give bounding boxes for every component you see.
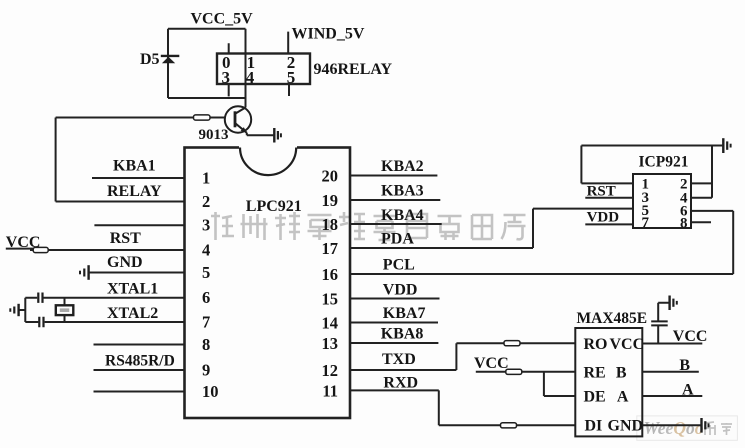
svg-text:3: 3 [222,68,231,87]
svg-text:4: 4 [202,240,210,259]
svg-text:7: 7 [202,312,210,331]
svg-text:PCL: PCL [383,257,415,274]
svg-text:B: B [679,357,690,374]
svg-text:2: 2 [202,192,210,211]
svg-text:VDD: VDD [587,210,620,226]
svg-text:9013: 9013 [199,127,229,143]
svg-text:RS485R/D: RS485R/D [105,353,175,370]
svg-text:KBA8: KBA8 [381,326,424,343]
svg-text:VCC: VCC [673,328,708,345]
svg-text:RST: RST [587,184,616,200]
svg-text:VCC_5V: VCC_5V [191,11,254,28]
svg-text:RE: RE [584,364,606,381]
svg-text:WeeQoo: WeeQoo [644,418,704,438]
svg-text:19: 19 [322,191,339,210]
svg-text:D5: D5 [140,51,160,68]
svg-text:VDD: VDD [383,282,418,299]
svg-text:4: 4 [246,68,255,87]
svg-text:MAX485E: MAX485E [577,310,648,327]
svg-text:ICP921: ICP921 [639,154,689,171]
svg-text:VCC: VCC [474,355,509,372]
svg-text:XTAL1: XTAL1 [107,281,158,298]
svg-text:GND: GND [608,418,644,435]
svg-text:16: 16 [322,265,339,284]
svg-text:KBA1: KBA1 [113,158,156,175]
svg-text:13: 13 [322,334,339,353]
svg-text:A: A [682,381,694,398]
svg-text:14: 14 [322,313,339,332]
svg-text:3: 3 [202,216,210,235]
svg-text:DI: DI [585,418,603,435]
svg-text:9: 9 [202,360,210,379]
svg-text:RELAY: RELAY [107,183,162,200]
svg-text:RXD: RXD [383,374,418,391]
svg-text:5: 5 [202,263,210,282]
svg-text:11: 11 [322,381,338,400]
svg-text:KBA4: KBA4 [381,207,424,224]
svg-text:LPC921: LPC921 [246,198,302,215]
svg-text:15: 15 [322,289,339,308]
svg-text:18: 18 [322,215,339,234]
svg-text:B: B [616,364,627,381]
svg-text:KBA7: KBA7 [383,305,426,322]
svg-text:20: 20 [322,166,339,185]
svg-text:GND: GND [107,254,143,271]
svg-text:6: 6 [202,288,210,307]
svg-text:A: A [617,389,629,406]
svg-text:946RELAY: 946RELAY [314,61,393,78]
svg-text:7: 7 [642,215,650,231]
svg-text:RST: RST [110,230,141,247]
svg-text:5: 5 [287,68,296,87]
svg-text:DE: DE [584,389,606,406]
svg-text:TXD: TXD [382,351,416,368]
svg-text:KBA2: KBA2 [381,158,424,175]
svg-text:XTAL2: XTAL2 [107,305,158,322]
svg-text:17: 17 [322,239,339,258]
svg-text:12: 12 [322,361,339,380]
svg-text:1: 1 [202,168,210,187]
svg-text:10: 10 [202,382,219,401]
svg-text:RO: RO [584,336,608,353]
svg-text:KBA3: KBA3 [381,183,424,200]
svg-text:WIND_5V: WIND_5V [292,25,365,42]
svg-text:8: 8 [680,216,688,232]
svg-text:8: 8 [202,335,210,354]
svg-text:VCC: VCC [610,336,645,353]
svg-text:PDA: PDA [381,231,414,248]
